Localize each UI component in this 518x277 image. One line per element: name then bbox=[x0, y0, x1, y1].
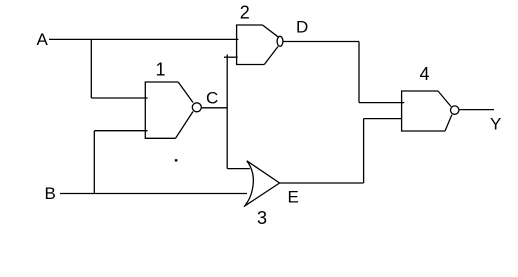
wire E vertical bbox=[363, 119, 365, 183]
svg-text:D: D bbox=[296, 18, 308, 37]
nand gate 1 bubble bbox=[192, 103, 201, 112]
wire E horizontal bbox=[280, 182, 364, 184]
wire D to gate4 top input bbox=[359, 102, 404, 104]
svg-text:2: 2 bbox=[240, 3, 250, 23]
nand gate 1 bottom diagonal bbox=[176, 112, 194, 139]
svg-text:A: A bbox=[37, 30, 49, 49]
or gate 3 bottom edge bbox=[244, 183, 280, 207]
wire C output bbox=[201, 107, 227, 109]
wire C to gate3 top input bbox=[227, 168, 250, 170]
wire D vertical bbox=[358, 42, 360, 103]
svg-text:1: 1 bbox=[155, 60, 165, 80]
wire B horizontal bbox=[60, 193, 247, 195]
wire A branch to gate1 top input bbox=[91, 97, 147, 99]
svg-text:B: B bbox=[45, 184, 56, 203]
wire E to gate4 bottom input bbox=[364, 118, 402, 120]
wire Y output bbox=[459, 109, 494, 111]
nand gate 2 bubble bbox=[277, 36, 283, 46]
nand gate 2 bottom diagonal bbox=[264, 47, 278, 65]
nand gate 4 body bbox=[402, 91, 445, 131]
wire A branch vertical bbox=[90, 39, 92, 98]
wire D horizontal bbox=[283, 41, 359, 43]
or gate 3 back arc bbox=[245, 161, 253, 205]
wire A horizontal bbox=[49, 38, 238, 40]
svg-text:C: C bbox=[206, 89, 218, 108]
nand gate 2 top diagonal bbox=[263, 25, 279, 37]
svg-text:4: 4 bbox=[419, 64, 429, 84]
nand gate 1 top diagonal bbox=[178, 82, 193, 103]
wire gate2 bottom input stub bbox=[224, 56, 238, 58]
nand gate 4 top diagonal bbox=[438, 91, 451, 107]
or gate 3 top edge bbox=[247, 161, 280, 183]
wire B branch vertical bbox=[93, 131, 95, 194]
svg-text:Y: Y bbox=[490, 115, 501, 134]
wire C vertical bbox=[226, 55, 228, 169]
nand gate 1 body bbox=[145, 82, 178, 138]
nand gate 2 body bbox=[237, 25, 265, 65]
stray dot mark bbox=[175, 159, 178, 161]
nand gate 4 bubble bbox=[451, 106, 459, 114]
wire B branch to gate1 bottom input bbox=[94, 130, 147, 132]
nand gate 4 bottom diagonal bbox=[445, 115, 452, 132]
svg-text:3: 3 bbox=[257, 208, 267, 228]
svg-text:E: E bbox=[288, 188, 299, 207]
